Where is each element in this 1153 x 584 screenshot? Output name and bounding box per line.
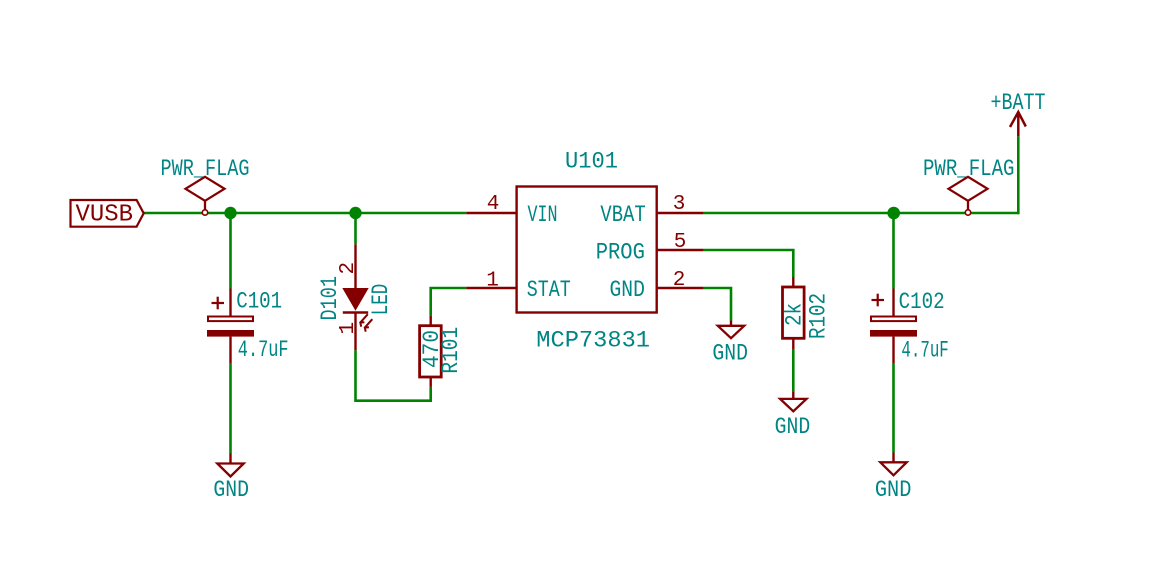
svg-text:3: 3 — [673, 193, 686, 216]
svg-text:PROG: PROG — [596, 239, 645, 265]
svg-text:GND: GND — [775, 414, 811, 440]
svg-text:1: 1 — [337, 322, 360, 335]
svg-text:2k: 2k — [782, 303, 808, 326]
svg-text:D101: D101 — [317, 276, 343, 321]
svg-text:U101: U101 — [565, 149, 618, 175]
svg-text:VIN: VIN — [528, 202, 558, 228]
svg-text:5: 5 — [674, 231, 687, 254]
svg-text:2: 2 — [337, 262, 360, 275]
svg-text:GND: GND — [712, 341, 748, 367]
svg-text:VUSB: VUSB — [76, 202, 134, 229]
svg-text:2: 2 — [673, 269, 686, 292]
svg-text:4.7uF: 4.7uF — [238, 337, 289, 363]
svg-text:GND: GND — [610, 277, 645, 303]
svg-text:1: 1 — [486, 270, 499, 293]
svg-text:R101: R101 — [438, 327, 464, 374]
svg-text:MCP73831: MCP73831 — [536, 328, 650, 354]
svg-text:GND: GND — [875, 477, 912, 503]
svg-text:VBAT: VBAT — [600, 202, 645, 228]
svg-text:4.7uF: 4.7uF — [901, 337, 948, 363]
svg-text:STAT: STAT — [527, 277, 571, 303]
svg-text:R102: R102 — [806, 293, 832, 339]
svg-text:4: 4 — [487, 193, 500, 216]
svg-text:GND: GND — [213, 477, 249, 503]
svg-text:LED: LED — [368, 284, 394, 316]
svg-text:C102: C102 — [899, 289, 945, 315]
svg-text:C101: C101 — [236, 288, 282, 314]
